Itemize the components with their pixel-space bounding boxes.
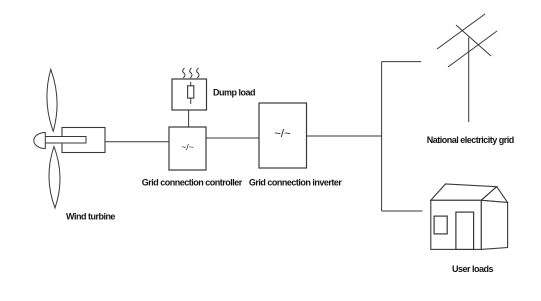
resistor body xyxy=(188,86,194,98)
svg-text:~/~: ~/~ xyxy=(274,128,291,140)
wire controller to inverter xyxy=(206,137,259,139)
hub nose cone xyxy=(34,133,45,149)
heat squiggle 2 xyxy=(190,68,192,78)
house gable xyxy=(481,187,507,203)
wire bus to user loads xyxy=(382,210,423,212)
wire bus to national grid xyxy=(382,61,422,63)
house roof top xyxy=(431,184,497,200)
svg-text:Grid connection controller: Grid connection controller xyxy=(142,178,243,188)
pylon pole xyxy=(468,38,470,123)
house window xyxy=(434,216,447,234)
shaft xyxy=(44,137,86,144)
wind turbine blade lower xyxy=(49,147,60,209)
house front wall xyxy=(431,200,481,249)
wire dump load to controller xyxy=(188,110,190,127)
pylon arm backslash xyxy=(456,25,491,56)
nacelle xyxy=(62,128,105,153)
svg-text:~/~: ~/~ xyxy=(181,142,194,152)
svg-text:User loads: User loads xyxy=(452,264,494,274)
dump load box xyxy=(172,79,207,110)
pylon arm slash upper xyxy=(437,14,485,49)
svg-text:Wind turbine: Wind turbine xyxy=(66,212,115,222)
controller box xyxy=(169,127,206,170)
inverter box xyxy=(259,103,307,168)
svg-text:Dump load: Dump load xyxy=(213,88,255,98)
wind turbine blade upper xyxy=(47,69,57,131)
house door xyxy=(456,212,474,249)
svg-text:National electricity grid: National electricity grid xyxy=(427,135,514,145)
pylon arm slash lower xyxy=(448,31,497,67)
wire inverter to bus xyxy=(307,135,382,137)
resistor top lead xyxy=(190,82,192,86)
svg-text:Grid connection inverter: Grid connection inverter xyxy=(249,178,343,188)
bus vertical line xyxy=(381,62,383,211)
resistor bottom lead xyxy=(190,98,192,104)
wire turbine to controller xyxy=(105,141,169,143)
heat squiggle 1 xyxy=(183,68,185,78)
heat squiggle 3 xyxy=(197,68,199,78)
house right wall xyxy=(481,200,507,249)
